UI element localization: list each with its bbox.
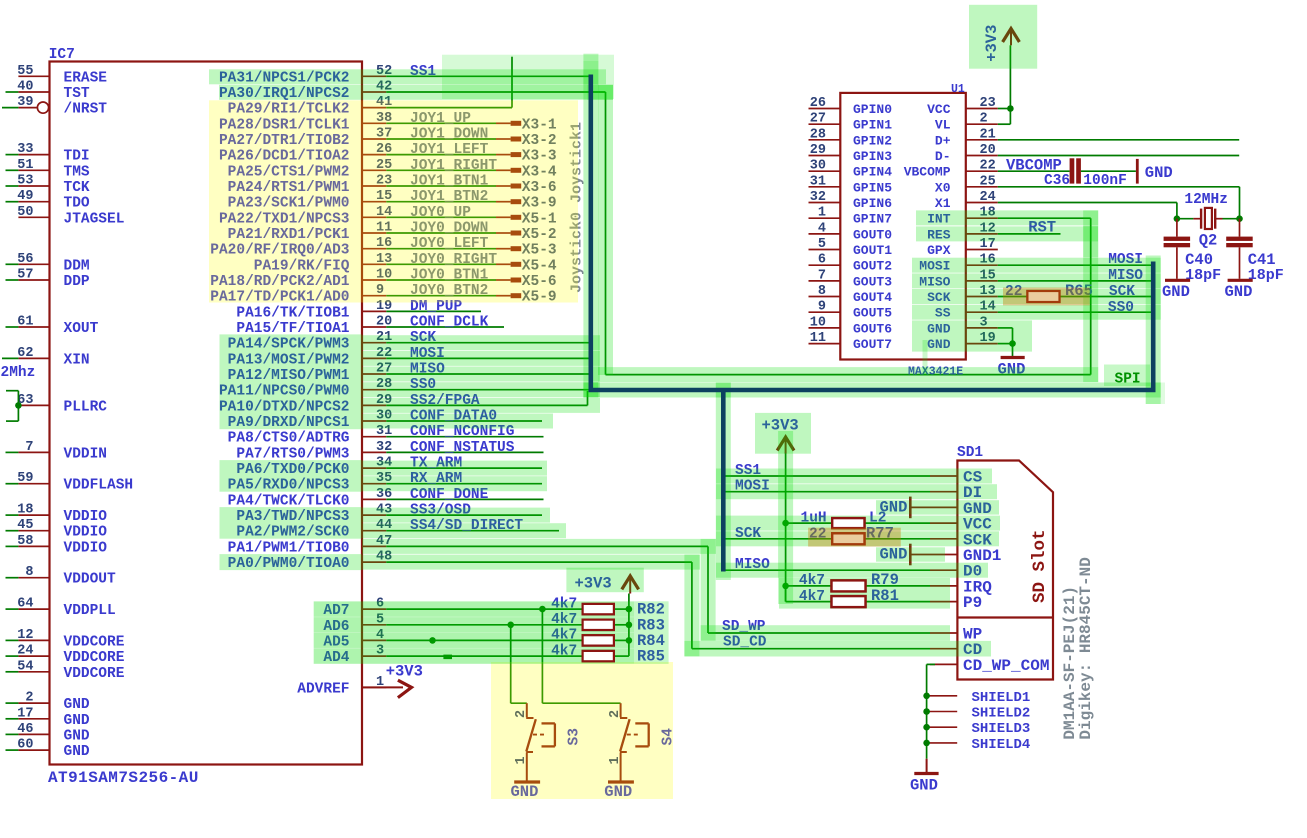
U1 pin 12 RES: [966, 233, 998, 235]
wire SS net U1: [998, 311, 1151, 313]
IC7 pin 19 PA16/TK/TIOB1: [362, 310, 386, 312]
svg-text:51: 51: [17, 158, 33, 173]
IC7 pin 36 PA4/TWCK/TLCK0: [362, 498, 386, 500]
SD1 connector outline: [957, 461, 1053, 680]
U1 pin 24 X1: [966, 202, 998, 204]
capacitor C40 18pF: [1176, 219, 1178, 237]
svg-text:U1: U1: [951, 83, 965, 96]
resistor R81 4k7: [785, 586, 787, 602]
svg-text:VDDPLL: VDDPLL: [64, 603, 116, 619]
svg-text:21: 21: [980, 127, 996, 142]
U1 pin 7 GOUT3: [809, 280, 841, 282]
IC7 pin 53 TCK: [18, 185, 49, 187]
U1 pin 31 GPIN5: [809, 186, 841, 188]
svg-text:VDDIO: VDDIO: [64, 525, 108, 541]
svg-text:62: 62: [17, 346, 33, 361]
svg-text:+3V3: +3V3: [386, 663, 423, 681]
svg-text:GOUT4: GOUT4: [853, 290, 892, 305]
svg-text:GPIN2: GPIN2: [853, 133, 892, 148]
svg-text:6: 6: [818, 253, 826, 268]
IC7 pin 24 VDDCORE: [18, 655, 49, 657]
svg-text:30: 30: [810, 159, 826, 174]
IC7 pin 34 PA6/TXD0/PCK0: [362, 467, 386, 469]
SD1 pin VCC: [930, 522, 957, 524]
ground GND at SD GND pin: [909, 497, 912, 519]
U1 pin 13 SCK: [966, 296, 998, 298]
IC7 pin 52 PA31/NPCS1/PCK2: [362, 75, 386, 77]
svg-text:GPIN7: GPIN7: [853, 212, 892, 227]
wire +3V3 rail SD: [785, 452, 787, 601]
svg-text:XOUT: XOUT: [64, 321, 99, 337]
U1 pin 9 GOUT5: [809, 311, 841, 313]
svg-text:46: 46: [17, 722, 33, 737]
IC7 pin 1 ADVREF: [362, 686, 386, 688]
switch S4: [620, 703, 622, 717]
IC7 pin 46 GND: [18, 733, 49, 735]
wire +3V3 rail for R82-R85: [628, 594, 630, 657]
IC7 pin 11 PA21/RXD1/PCK1: [362, 232, 386, 234]
IC7 pin 37 PA27/DTR1/TIOB2: [362, 138, 386, 140]
svg-text:GOUT5: GOUT5: [853, 306, 892, 321]
IC7 pin 45 VDDIO: [18, 530, 49, 532]
svg-text:11: 11: [810, 331, 826, 346]
capacitor C36 100nF: [1070, 158, 1075, 183]
SD1 pin GND1: [930, 554, 957, 556]
U1 pin 6 GOUT2: [809, 264, 841, 266]
SD1 pin GND: [930, 506, 957, 508]
svg-text:PA8/CTS0/ADTRG: PA8/CTS0/ADTRG: [228, 431, 350, 447]
U1 pin 27 GPIN1: [809, 123, 841, 125]
svg-text:28: 28: [810, 127, 826, 142]
crystal Q2 12MHz: [1193, 218, 1201, 220]
IC7 pin 14 PA22/TXD1/NPCS3: [362, 216, 386, 218]
svg-text:PA4/TWCK/TLCK0: PA4/TWCK/TLCK0: [228, 493, 350, 509]
svg-text:GOUT0: GOUT0: [853, 227, 892, 242]
connector pin X3-4: [511, 168, 522, 173]
svg-text:GOUT2: GOUT2: [853, 259, 892, 274]
svg-text:VBCOMP: VBCOMP: [1006, 156, 1062, 174]
IC7 pin 5 AD6: [362, 624, 386, 626]
IC7 pin 64 VDDPLL: [18, 608, 49, 610]
IC7 pin 13 PA19/RK/FIQ: [362, 263, 386, 265]
svg-text:8: 8: [25, 565, 33, 580]
connector pin X3-9: [511, 199, 522, 204]
svg-text:18: 18: [17, 503, 33, 518]
svg-text:Q2: Q2: [1199, 231, 1218, 249]
svg-text:VDDFLASH: VDDFLASH: [64, 478, 134, 494]
svg-text:55: 55: [17, 64, 33, 79]
IC7 pin 23 PA24/RTS1/PWM1: [362, 185, 386, 187]
svg-text:CONF_DCLK: CONF_DCLK: [410, 315, 489, 331]
svg-text:31: 31: [810, 174, 826, 189]
wire AD6 to S3: [510, 625, 512, 703]
svg-text:32: 32: [376, 440, 392, 455]
svg-text:D-: D-: [935, 149, 951, 164]
IC7 pin 15 PA23/SCK1/PWM0: [362, 201, 386, 203]
IC7 pin 39 /NRST: [18, 107, 36, 109]
resistor R65 22 on SCK: [998, 296, 1028, 298]
ground GND right of C36: [1136, 159, 1139, 184]
svg-text:39: 39: [17, 95, 33, 110]
IC7 pin 6 AD7: [362, 608, 386, 610]
svg-text:18pF: 18pF: [1248, 267, 1284, 284]
IC7 pin 56 DDM: [18, 263, 49, 265]
capacitor C41 18pF: [1239, 219, 1241, 237]
SD1 pin CD: [930, 648, 957, 650]
svg-text:GPIN6: GPIN6: [853, 196, 892, 211]
U1 pin 5 GOUT1: [809, 249, 841, 251]
svg-text:CONF_NSTATUS: CONF_NSTATUS: [410, 440, 515, 456]
U1 pin 22 VBCOMP: [966, 170, 998, 172]
SD1 pin SHIELD4: [923, 740, 930, 747]
svg-text:VL: VL: [935, 118, 951, 133]
svg-text:27: 27: [810, 112, 826, 127]
svg-text:53: 53: [17, 174, 33, 189]
U1 pin 32 GPIN6: [809, 202, 841, 204]
U1 pin 8 GOUT4: [809, 296, 841, 298]
svg-text:GND: GND: [64, 744, 90, 760]
wire CD_WP_COM to GND: [927, 663, 935, 665]
ground GND below SD1: [926, 759, 928, 774]
svg-text:GPIN5: GPIN5: [853, 180, 892, 195]
wire net SD_CD (pin48 to SD1 CD): [691, 562, 693, 649]
svg-text:24: 24: [17, 644, 33, 659]
svg-text:24: 24: [980, 190, 996, 205]
U1 pin 25 X0: [966, 186, 998, 188]
IC7 pin 50 JTAGSEL: [18, 216, 49, 218]
IC7 pin 40 TST: [18, 91, 49, 93]
svg-text:PA7/RTS0/PWM3: PA7/RTS0/PWM3: [236, 446, 349, 462]
IC7 pin 29 PA10/DTXD/NPCS2: [362, 404, 386, 406]
svg-text:8: 8: [818, 284, 826, 299]
svg-text:DDM: DDM: [64, 258, 90, 274]
svg-text:TMS: TMS: [64, 164, 90, 180]
svg-text:4: 4: [818, 221, 826, 236]
wire MISO to SD D0: [723, 569, 930, 571]
IC7 pin 62 XIN: [18, 357, 49, 359]
wire GND pin19: [998, 343, 1013, 345]
svg-text:DDP: DDP: [64, 274, 90, 290]
SD1 pin SHIELD1: [923, 693, 930, 700]
connector pin X5-2: [511, 231, 522, 236]
IC7 pin 59 VDDFLASH: [18, 483, 49, 485]
highlight group: green net highlight overlays: [442, 55, 614, 99]
highlight group: joystick yellow region: [209, 100, 578, 302]
ground GND at SD GND1 pin: [909, 544, 912, 566]
svg-text:GPIN1: GPIN1: [853, 118, 892, 133]
svg-text:TDI: TDI: [64, 149, 90, 165]
svg-text:18pF: 18pF: [1185, 267, 1221, 284]
SD1 pin WP: [930, 632, 957, 634]
ground GND below C40: [1165, 279, 1190, 282]
svg-text:VBCOMP: VBCOMP: [904, 165, 951, 180]
svg-text:57: 57: [17, 268, 33, 283]
IC7 pin 49 TDO: [18, 201, 49, 203]
svg-text:SD Slot: SD Slot: [1030, 529, 1050, 603]
svg-text:2Mhz: 2Mhz: [1, 365, 36, 381]
svg-text:20: 20: [980, 143, 996, 158]
svg-text:GOUT7: GOUT7: [853, 337, 892, 352]
IC7 pin 51 TMS: [18, 169, 49, 171]
IC7 pin 55 ERASE: [18, 75, 49, 77]
svg-text:SHIELD3: SHIELD3: [972, 721, 1031, 737]
highlight orange R77: [808, 528, 901, 547]
highlight group: switches yellow region: [491, 662, 673, 799]
IC7 pin 35 PA5/RXD0/NPCS3: [362, 483, 386, 485]
IC7 pin 57 DDP: [18, 279, 49, 281]
connector pin X3-1: [511, 121, 522, 126]
svg-text:50: 50: [17, 205, 33, 220]
svg-text:GND: GND: [64, 713, 90, 729]
wire X1 net: [998, 202, 1177, 204]
U1 pin 17 GPX: [966, 249, 998, 251]
switch S3: [526, 703, 528, 717]
svg-text:22: 22: [980, 159, 996, 174]
U1 pin 30 GPIN4: [809, 170, 841, 172]
component bodies redrawn above highlight: [583, 604, 614, 614]
wire X0 net: [998, 186, 1240, 188]
IC7 pin 8 VDDOUT: [18, 577, 49, 579]
svg-text:40: 40: [17, 80, 33, 95]
IC7 pin 30 PA9/DRXD/NPCS1: [362, 420, 386, 422]
U1 pin 2 VL: [966, 123, 998, 125]
U1 pin 23 VCC: [966, 108, 998, 110]
connector pin X5-4: [511, 262, 522, 267]
svg-text:PLLRC: PLLRC: [64, 399, 108, 415]
IC7 pin 16 PA20/RF/IRQ0/AD3: [362, 248, 386, 250]
svg-text:PA1/PWM1/TIOB0: PA1/PWM1/TIOB0: [228, 540, 350, 556]
wire SCK to SD / resistor R77 22: [723, 538, 832, 540]
IC IC7 outline: [50, 62, 363, 765]
svg-text:IC7: IC7: [49, 47, 75, 63]
U1 pin 3 GND: [966, 327, 998, 329]
wire D+ net: [998, 139, 1239, 141]
svg-text:29: 29: [810, 143, 826, 158]
svg-text:GND: GND: [64, 728, 90, 744]
connector pin X3-3: [511, 152, 522, 157]
IC7 pin 32 PA7/RTS0/PWM3: [362, 451, 386, 453]
resistor R84 4k7: [583, 635, 614, 645]
IC7 pin 7 VDDIN: [18, 451, 49, 453]
svg-text:TCK: TCK: [64, 180, 90, 196]
svg-text:2: 2: [980, 112, 988, 127]
svg-text:GND: GND: [1225, 283, 1253, 301]
svg-text:TST: TST: [64, 86, 90, 102]
wire PLLRC net fragment with junction: [6, 390, 18, 392]
IC7 pin 47 PA1/PWM1/TIOB0: [362, 545, 386, 547]
inductor L2 1uH: [786, 522, 833, 524]
svg-text:23: 23: [980, 96, 996, 111]
svg-text:VDDCORE: VDDCORE: [64, 634, 125, 650]
svg-text:X1: X1: [935, 196, 951, 211]
U1 pin 4 GOUT0: [809, 233, 841, 235]
SD1 pin CS: [930, 475, 957, 477]
IC7 pin 48 PA0/PWM0/TIOA0: [362, 561, 386, 563]
SD1 pin D0: [930, 569, 957, 571]
svg-text:GND: GND: [1145, 164, 1173, 182]
U1 pin 16 MOSI: [966, 264, 998, 266]
IC7 pin 12 VDDCORE: [18, 639, 49, 641]
IC7 pin 63 PLLRC: [18, 404, 49, 406]
U1 pin 28 GPIN2: [809, 139, 841, 141]
svg-text:GPIN0: GPIN0: [853, 102, 892, 117]
U1 pin 19 GND: [966, 343, 998, 345]
svg-text:GND: GND: [64, 697, 90, 713]
IC7 pin 54 VDDCORE: [18, 671, 49, 673]
svg-text:D+: D+: [935, 133, 951, 148]
IC7 pin 3 AD4: [362, 655, 386, 657]
IC7 pin 18 VDDIO: [18, 514, 49, 516]
svg-text:GPX: GPX: [927, 243, 951, 258]
IC7 pin 20 PA15/TF/TIOA1: [362, 326, 386, 328]
svg-text:56: 56: [17, 252, 33, 267]
svg-text:GOUT1: GOUT1: [853, 243, 892, 258]
IC U1 outline: [840, 93, 966, 360]
U1 pin 10 GOUT6: [809, 327, 841, 329]
U1 pin 18 INT: [966, 217, 998, 219]
IC7 pin 2 GND: [18, 702, 49, 704]
SD1 pin SHIELD3: [923, 724, 930, 731]
svg-text:VCC: VCC: [927, 102, 951, 117]
svg-text:64: 64: [17, 597, 33, 612]
svg-text:59: 59: [17, 471, 33, 486]
IC7 pin 26 PA26/DCD1/TIOA2: [362, 154, 386, 156]
svg-text:GPIN4: GPIN4: [853, 165, 892, 180]
svg-text:VDDIO: VDDIO: [64, 540, 108, 556]
wire net pin41 up: [511, 57, 513, 108]
resistor R85 4k7: [583, 651, 614, 661]
svg-text:17: 17: [17, 706, 33, 721]
svg-text:7: 7: [25, 440, 33, 455]
wire MOSI to SD DI: [723, 491, 930, 493]
svg-text:GOUT6: GOUT6: [853, 321, 892, 336]
svg-text:1: 1: [818, 206, 826, 221]
svg-text:2: 2: [25, 691, 33, 706]
wire SS1 to SD CS: [723, 475, 930, 477]
svg-text:VDDCORE: VDDCORE: [64, 650, 125, 666]
IC7 pin 10 PA18/RD/PCK2/AD1: [362, 279, 386, 281]
IC7 pin 61 XOUT: [18, 326, 49, 328]
bus SPI (thick): [591, 75, 1153, 391]
connector pin X3-2: [511, 137, 522, 142]
svg-text:32: 32: [810, 190, 826, 205]
wire SS2/FPGA to bus: [587, 391, 589, 405]
svg-text:20: 20: [376, 315, 392, 330]
U1 pin 15 MISO: [966, 280, 998, 282]
svg-text:SHIELD1: SHIELD1: [972, 690, 1031, 706]
U1 pin 29 GPIN3: [809, 155, 841, 157]
svg-text:26: 26: [810, 96, 826, 111]
svg-text:49: 49: [17, 189, 33, 204]
svg-text:ERASE: ERASE: [64, 70, 108, 86]
svg-text:GOUT3: GOUT3: [853, 274, 892, 289]
wire MOSI net U1: [998, 264, 1151, 266]
svg-text:PA16/TK/TIOB1: PA16/TK/TIOB1: [236, 305, 349, 321]
svg-text:/NRST: /NRST: [64, 102, 108, 118]
IC7 pin 58 VDDIO: [18, 545, 49, 547]
SD1 pin SCK: [930, 538, 957, 540]
wire D- net: [998, 155, 1239, 157]
U1 pin 20 D-: [966, 155, 998, 157]
svg-text:GND: GND: [1162, 283, 1190, 301]
svg-text:ADVREF: ADVREF: [297, 681, 349, 697]
IC7 pin 38 PA28/DSR1/TCLK1: [362, 122, 386, 124]
IC7 pin 60 GND: [18, 749, 49, 751]
U1 pin 21 D+: [966, 139, 998, 141]
svg-text:AT91SAM7S256-AU: AT91SAM7S256-AU: [48, 769, 199, 787]
wire VBCOMP net: [998, 170, 1070, 172]
SD1 pin P9: [930, 601, 957, 603]
svg-text:7: 7: [818, 268, 826, 283]
wire MISO net U1: [998, 280, 1151, 282]
svg-text:VDDIN: VDDIN: [64, 446, 108, 462]
IC7 pin 31 PA8/CTS0/ADTRG: [362, 436, 386, 438]
connector pin X5-1: [511, 215, 522, 220]
IC7 pin 27 PA12/MISO/PWM1: [362, 373, 386, 375]
svg-text:SHIELD2: SHIELD2: [972, 706, 1031, 722]
ground GND below C41: [1228, 279, 1253, 282]
U1 pin 14 SS: [966, 311, 998, 313]
wire crystal left node: [1177, 218, 1194, 220]
wire INT net at U1: [998, 217, 1091, 219]
IC7 pin 43 PA3/TWD/NPCS3: [362, 514, 386, 516]
resistor R82 4k7: [583, 604, 614, 614]
svg-text:XIN: XIN: [64, 352, 90, 368]
svg-text:GPIN3: GPIN3: [853, 149, 892, 164]
svg-text:TDO: TDO: [64, 196, 90, 212]
IC7 pin 33 TDI: [18, 154, 49, 156]
svg-text:5: 5: [818, 237, 826, 252]
IC7 pin 4 AD5: [362, 639, 386, 641]
SD1 pin IRQ: [930, 585, 957, 587]
U1 pin 1 GPIN7: [809, 217, 841, 219]
svg-text:45: 45: [17, 518, 33, 533]
IC7 pin 42 PA30/IRQ1/NPCS2: [362, 91, 386, 93]
highlight orange R65: [1003, 288, 1090, 306]
svg-text:X0: X0: [935, 180, 951, 195]
resistor R79 4k7: [786, 585, 832, 587]
U1 pin 11 GOUT7: [809, 343, 841, 345]
connector pin X5-6: [511, 278, 522, 283]
svg-text:Digikey: HR845CT-ND: Digikey: HR845CT-ND: [1077, 557, 1095, 739]
resistor R83 4k7: [583, 620, 614, 630]
svg-text:JTAGSEL: JTAGSEL: [64, 211, 125, 227]
svg-text:25: 25: [980, 174, 996, 189]
IC7 pin 25 PA25/CTS1/PWM2: [362, 169, 386, 171]
svg-text:12MHz: 12MHz: [1184, 192, 1228, 208]
svg-text:58: 58: [17, 534, 33, 549]
svg-text:VDDOUT: VDDOUT: [64, 572, 117, 588]
svg-text:60: 60: [17, 738, 33, 753]
connector pin X5-3: [511, 246, 522, 251]
U1 pin 26 GPIN0: [809, 108, 841, 110]
connector pin X5-9: [511, 293, 522, 298]
svg-text:CD_WP_COM: CD_WP_COM: [963, 657, 1049, 675]
wire crystal right node: [1223, 218, 1240, 220]
svg-text:33: 33: [17, 142, 33, 157]
IC7 pin 22 PA13/MOSI/PWM2: [362, 357, 386, 359]
svg-text:10: 10: [810, 315, 826, 330]
SD1 pin DI: [930, 491, 957, 493]
svg-text:VDDIO: VDDIO: [64, 509, 108, 525]
wire VCC/VL to +3V3: [998, 108, 1011, 110]
svg-text:SHIELD4: SHIELD4: [972, 737, 1031, 753]
svg-text:GND: GND: [910, 777, 938, 795]
SD1 pin CD_WP_COM: [930, 663, 957, 665]
ground GND below U1: [1001, 356, 1025, 359]
wire AD7 to S4: [541, 609, 543, 703]
svg-text:P9: P9: [963, 594, 982, 612]
